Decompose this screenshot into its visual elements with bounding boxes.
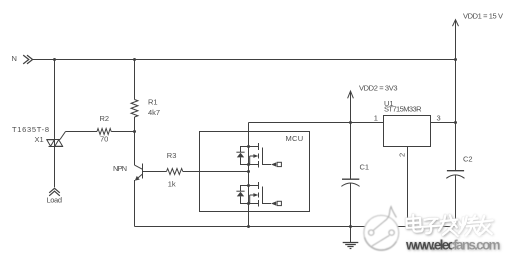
svg-text:N: N (12, 54, 17, 63)
svg-text:C2: C2 (463, 155, 473, 164)
svg-text:VDD1 = 15 V: VDD1 = 15 V (463, 12, 503, 21)
svg-text:1: 1 (374, 114, 378, 123)
svg-text:2: 2 (398, 153, 407, 157)
svg-text:1k: 1k (168, 180, 176, 189)
svg-text:T1635T-8: T1635T-8 (12, 125, 49, 134)
svg-text:C1: C1 (360, 163, 370, 172)
svg-text:VDD2 = 3V3: VDD2 = 3V3 (359, 84, 398, 93)
svg-text:70: 70 (100, 135, 108, 144)
svg-text:4k7: 4k7 (148, 108, 160, 117)
svg-text:Load: Load (47, 196, 63, 205)
svg-text:MCU: MCU (286, 134, 304, 143)
svg-text:R1: R1 (148, 98, 158, 107)
svg-text:R2: R2 (100, 114, 110, 123)
svg-text:R3: R3 (167, 151, 177, 160)
svg-text:3: 3 (437, 114, 441, 123)
svg-text:ST715M33R: ST715M33R (384, 105, 422, 114)
svg-text:X1: X1 (35, 135, 44, 144)
svg-text:NPN: NPN (113, 164, 127, 173)
